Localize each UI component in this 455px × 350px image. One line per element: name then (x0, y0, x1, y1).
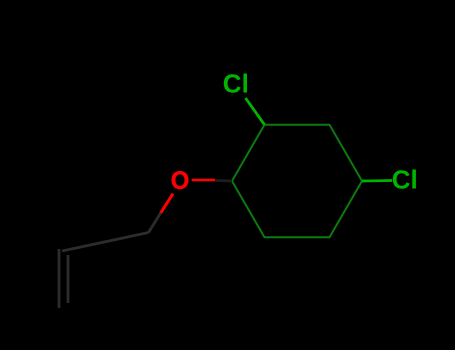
svg-text:Cl: Cl (223, 69, 249, 99)
svg-text:Cl: Cl (392, 164, 418, 194)
svg-text:O: O (171, 167, 190, 195)
